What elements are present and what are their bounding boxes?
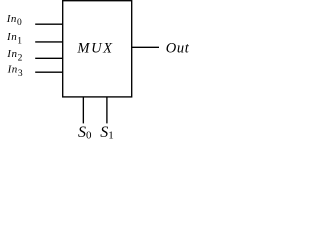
- svg-text:In0: In0: [6, 13, 23, 28]
- wire input In0: [35, 23, 63, 25]
- wire output: [132, 46, 159, 48]
- svg-text:Out: Out: [166, 40, 190, 56]
- svg-text:In1: In1: [6, 31, 23, 46]
- svg-text:In3: In3: [7, 64, 24, 79]
- svg-text:MUX: MUX: [76, 40, 113, 56]
- wire select S0: [82, 97, 84, 124]
- wire input In3: [35, 71, 63, 73]
- wire input In2: [35, 57, 63, 59]
- svg-text:S0: S0: [78, 124, 92, 142]
- svg-text:S1: S1: [100, 124, 114, 142]
- svg-text:In2: In2: [6, 48, 23, 63]
- wire select S1: [106, 97, 108, 124]
- mux body U1: [63, 1, 132, 97]
- wire input In1: [35, 41, 63, 43]
